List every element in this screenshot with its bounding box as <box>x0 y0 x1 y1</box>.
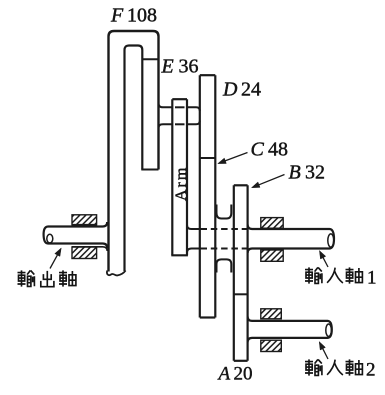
output shaft <box>48 222 107 227</box>
hanzi 輸 of output label <box>18 270 35 286</box>
D-C junction line <box>200 157 216 159</box>
svg-text:32: 32 <box>305 162 325 184</box>
gear E bottom edge <box>141 169 158 171</box>
gear B / gear A column <box>234 185 248 360</box>
arrow input shaft 1 label <box>321 254 328 267</box>
input shaft 1 end face ellipse <box>328 234 334 247</box>
arm hub top edge <box>172 98 187 100</box>
arm column <box>172 99 187 255</box>
arrow to B32 <box>256 175 285 187</box>
gear B top edge <box>234 184 248 186</box>
input shaft 2 bearing upper <box>261 309 282 319</box>
svg-text:108: 108 <box>127 5 157 27</box>
hanzi 輸 of input 1 label <box>305 267 322 283</box>
gear D top edge <box>200 74 216 76</box>
main shaft solid segment with fillets at arm <box>187 225 200 229</box>
gear A bottom edge <box>234 360 248 362</box>
main shaft hidden edges (dashed through C and B) <box>201 228 248 230</box>
E-F mesh line <box>142 58 158 60</box>
countershaft bottom edge <box>159 124 173 128</box>
hanzi 軸 of input 1 label <box>346 267 363 283</box>
countershaft top edge <box>159 104 173 108</box>
output bearing seat lines <box>72 224 97 226</box>
C-B sleeve upper fillet <box>217 205 232 219</box>
arrow output shaft label <box>50 251 60 268</box>
hanzi 入 of input 1 label <box>327 268 343 283</box>
C-B sleeve lower fillet <box>217 259 232 272</box>
svg-text:48: 48 <box>268 139 288 161</box>
svg-text:2: 2 <box>366 360 376 381</box>
output shaft end face ellipse <box>47 234 53 243</box>
input shaft 1 bearing lower <box>261 250 283 261</box>
input shaft 2 end face ellipse <box>326 324 332 336</box>
gear E (inner bracket) <box>125 46 143 272</box>
B-A junction line <box>234 293 248 295</box>
svg-text:A: A <box>217 364 231 385</box>
hanzi 軸 of output label <box>59 270 76 286</box>
svg-text:E: E <box>161 56 174 78</box>
input shaft 1 bearing upper <box>261 218 283 229</box>
svg-text:D: D <box>222 79 238 101</box>
gear C bottom edge <box>200 316 216 318</box>
svg-text:36: 36 <box>179 56 199 78</box>
input shaft 2 bearing lower <box>261 340 282 351</box>
gear D / gear C column <box>200 75 216 317</box>
svg-text:C: C <box>251 139 265 161</box>
svg-text:1: 1 <box>367 268 377 289</box>
svg-text:24: 24 <box>241 79 261 101</box>
arm bottom edge <box>171 254 188 256</box>
hanzi 軸 of input 2 label <box>346 359 363 375</box>
arrow input shaft 2 label <box>321 345 328 359</box>
hanzi 入 of input 2 label <box>327 360 343 375</box>
hanzi 輸 of input 2 label <box>305 359 322 375</box>
hanzi 出 of output label <box>41 271 54 287</box>
input shaft 1 <box>248 225 334 254</box>
output bearing block lower <box>72 247 97 259</box>
output bearing block upper <box>72 215 97 225</box>
svg-text:Arm: Arm <box>173 166 190 201</box>
svg-text:20: 20 <box>234 364 253 385</box>
input shaft 2 <box>248 317 332 343</box>
svg-text:B: B <box>289 162 301 184</box>
arrow to C48 <box>222 153 248 163</box>
svg-text:F: F <box>110 5 124 27</box>
break squiggle on F/E arms <box>107 271 126 276</box>
ring gear F (outer bracket) <box>109 31 159 272</box>
